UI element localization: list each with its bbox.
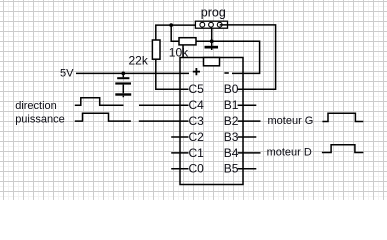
svg-text:B1: B1 — [224, 98, 239, 112]
svg-text:direction: direction — [15, 100, 57, 112]
svg-text:puissance: puissance — [15, 113, 65, 125]
svg-text:C0: C0 — [189, 162, 205, 176]
svg-text:C1: C1 — [189, 146, 205, 160]
svg-text:10k: 10k — [169, 45, 189, 59]
svg-text:prog: prog — [201, 5, 226, 19]
svg-text:C4: C4 — [189, 98, 205, 112]
svg-text:B5: B5 — [224, 162, 239, 176]
svg-text:moteur G: moteur G — [268, 115, 314, 127]
svg-text:B4: B4 — [224, 146, 239, 160]
svg-text:B3: B3 — [224, 130, 239, 144]
svg-text:C3: C3 — [189, 114, 205, 128]
svg-text:moteur D: moteur D — [267, 147, 312, 159]
svg-text:22k: 22k — [129, 53, 149, 67]
svg-text:B2: B2 — [224, 114, 239, 128]
svg-text:5V: 5V — [60, 68, 74, 80]
svg-text:C2: C2 — [189, 130, 205, 144]
svg-text:C5: C5 — [189, 82, 205, 96]
svg-text:B0: B0 — [224, 82, 239, 96]
